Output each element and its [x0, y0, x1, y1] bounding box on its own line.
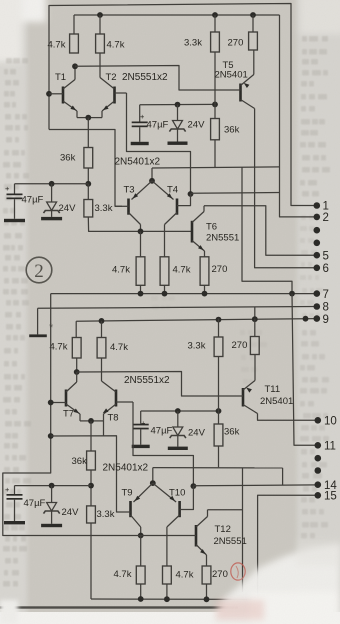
transistor T3 2N5401	[151, 168, 153, 181]
wire mid bias node line	[140, 103, 215, 105]
node R2 top	[97, 12, 103, 18]
T7 bar	[65, 390, 68, 407]
terminal dot 11	[315, 442, 322, 449]
wire mid bias node line b	[141, 410, 219, 412]
wire cap/zener bias line left	[15, 183, 89, 185]
resistor R 3.3k (left)	[84, 200, 93, 218]
wire terminal 15 to lower rail	[258, 495, 318, 599]
zener junction b	[49, 483, 55, 489]
wire T5 collector to terminal 6	[255, 109, 316, 268]
wire to T9 base	[51, 436, 124, 512]
resistor R 4.7k (T4 load)	[160, 257, 169, 286]
wire T12 collector line	[208, 509, 243, 511]
ground stem	[37, 308, 39, 334]
wire 36k chain from emitters	[87, 118, 89, 148]
node bias line	[85, 181, 91, 187]
wire 36k-b chain	[90, 421, 92, 451]
wire T8 base to T9/T10 mirror	[133, 402, 193, 486]
wire jog to terminal7 node	[242, 167, 292, 293]
terminal dot 15	[315, 492, 322, 499]
terminal dot nc	[315, 467, 322, 474]
capacitor 47uF (middle top)	[139, 105, 141, 122]
terminal dot 9	[314, 315, 321, 322]
T11 bar	[242, 388, 245, 407]
wire emitter supply line y167	[152, 167, 280, 168]
resistor R 4.7k (T1 load)	[70, 34, 79, 53]
T8 bar	[115, 390, 118, 407]
T10 bar	[178, 501, 181, 517]
resistor R 270 (T6 emitter)	[200, 257, 209, 286]
resistor R 4.7k (T10 load)	[163, 566, 172, 584]
wire V+ column to terminal 2	[280, 15, 317, 217]
wire T1 collector to T5 base	[72, 63, 78, 69]
node terminal7 right	[289, 291, 295, 297]
ground (zener left b)	[41, 524, 62, 527]
zener diode 24V (left bottom)	[51, 486, 53, 503]
terminal dot 7	[314, 290, 321, 297]
wire emitter supply line b	[153, 467, 283, 469]
T1 bar	[62, 87, 65, 104]
terminal dot nc	[315, 455, 322, 462]
terminal dot 10	[315, 417, 322, 424]
zener junction	[49, 181, 55, 187]
zener junction mid b	[175, 408, 181, 414]
ground (cap left)	[4, 219, 25, 222]
wire T1 base tap	[46, 91, 52, 97]
T12 bar	[195, 525, 198, 547]
wire T8 emitter stub to T9-feed line	[103, 421, 105, 436]
wire common emitter node	[85, 115, 91, 121]
node common emitters b	[88, 418, 94, 424]
capacitor 47uF (middle bottom)	[140, 411, 142, 424]
wire cap/zener bias line bottom-left	[15, 485, 92, 487]
node bias line b	[88, 483, 94, 489]
resistor R 3.3k (left b)	[87, 506, 96, 523]
wire input/feedback loop to terminal 1	[49, 4, 316, 206]
T4 bar	[176, 199, 179, 215]
resistor R 4.7k (T3 load)	[136, 257, 145, 286]
node T7 base	[48, 400, 54, 406]
node T9 base feed	[48, 433, 54, 439]
node T4 collector/base	[188, 191, 194, 197]
transistor T9 2N5401	[152, 468, 154, 484]
zener diode 24V (middle bottom)	[177, 411, 179, 427]
wire node to terminal 14	[193, 484, 317, 487]
ground (cap middle b)	[132, 445, 150, 448]
wire 3.3k bottom to T6 base line	[88, 217, 191, 231]
terminal dot nc	[314, 227, 321, 234]
resistor R 270 (T11 emitter)	[250, 337, 259, 355]
wire to T3 base	[49, 130, 122, 207]
node T3 collector	[138, 229, 144, 235]
wire R1 top stem	[73, 15, 75, 34]
T3 bar	[127, 199, 130, 215]
resistor R 4.7k (T9 load)	[136, 566, 145, 584]
wire 36k-b bottom to emitter line b	[218, 446, 220, 467]
ground (zener middle b)	[168, 447, 188, 450]
wire lower supply rail / terminal 9	[76, 319, 316, 322]
wire stub term8 to lower rail	[254, 307, 256, 319]
terminal dot 6	[314, 265, 321, 272]
node T10 collector/base b	[191, 483, 197, 489]
terminal dot 14	[315, 481, 322, 488]
wire terminal 11 from terminal7 node	[292, 294, 318, 446]
node R3 top	[212, 12, 218, 18]
wire 3.3k-b bottom to lower rail	[90, 523, 92, 599]
wire R bottoms stems	[140, 285, 142, 293]
wire terminal 7 line / lower input loop	[51, 293, 316, 295]
capacitor 47uF (left top)	[14, 184, 16, 194]
scan bottom edge band	[0, 612, 340, 624]
red pen mark next to 270	[231, 563, 245, 580]
wire 36k bottom to emitter line	[214, 140, 216, 168]
circled number 2	[26, 257, 52, 283]
zener junction mid	[175, 102, 181, 108]
resistor R 270 (T12 emitter)	[202, 566, 211, 584]
node R4 top	[250, 12, 256, 18]
wire T9 collector line to T12 base	[91, 535, 191, 537]
node 3.3k bottom / 36k top	[212, 102, 218, 108]
zener diode 24V (middle top)	[177, 105, 179, 121]
wire R1b stem	[75, 321, 77, 337]
resistor R 36k (right b)	[214, 424, 223, 446]
ground (zener left)	[41, 217, 62, 220]
wire T6 collector to terminal 5	[204, 206, 316, 255]
resistor R 4.7k (T8 load)	[97, 338, 106, 359]
wire 467-line down to term14 line	[282, 468, 284, 485]
resistor R 270 (T5 emitter)	[249, 32, 258, 50]
resistor R 3.3k (bias b)	[214, 337, 223, 357]
T6 bar	[191, 221, 194, 243]
ground (signal) bar	[29, 334, 47, 337]
capacitor 47uF (left bottom)	[14, 486, 16, 494]
ground (cap middle)	[131, 142, 149, 145]
ground (zener middle)	[168, 142, 188, 145]
wire top supply rail	[74, 14, 280, 16]
wire node to V+ column	[191, 192, 280, 195]
T9 bar	[129, 501, 132, 517]
wire terminal 8 ground line	[38, 307, 316, 309]
wire T7 collector to T11 base	[76, 358, 78, 372]
T2 bar	[113, 87, 116, 104]
resistor R 36k (right)	[211, 119, 220, 140]
node T9 collector b	[138, 533, 144, 539]
terminal dot 1	[314, 202, 321, 209]
resistor R 4.7k (T2 load)	[96, 34, 105, 53]
terminal dot 2	[314, 214, 321, 221]
white watermark blob bottom-right	[213, 544, 340, 624]
node 3.3k-b bottom / 36k-b top	[216, 408, 222, 414]
zener diode 24V (left top)	[51, 184, 53, 202]
wire T2 base to T3/T4 mirror	[127, 93, 191, 194]
terminal dot nc	[314, 240, 321, 247]
resistor R 3.3k (bias)	[211, 32, 220, 52]
ground (cap left b)	[4, 521, 25, 524]
wire terminal7 loop down to T7 base	[3, 294, 91, 536]
wire T11 collector to terminal 10	[258, 414, 318, 421]
wire jog down right	[242, 468, 244, 592]
wire lower-lower rail	[91, 598, 258, 600]
terminal dot 5	[314, 252, 321, 259]
resistor R 4.7k (T7 load)	[72, 338, 81, 359]
T5 bar	[239, 84, 242, 102]
terminal dot 8	[314, 303, 321, 310]
resistor R 36k (left b)	[87, 451, 96, 470]
resistor R 36k (left)	[84, 148, 93, 169]
